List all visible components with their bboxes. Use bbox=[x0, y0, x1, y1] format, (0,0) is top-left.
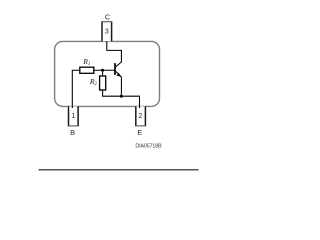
wire R2 bottom to emitter rail bbox=[103, 90, 140, 108]
svg-text:2: 2 bbox=[138, 111, 142, 120]
svg-text:R2: R2 bbox=[89, 77, 98, 87]
transistor Q1 collector lead bbox=[116, 62, 122, 67]
node junction dot base/R2 bbox=[101, 69, 104, 72]
resistor R2 bbox=[100, 76, 106, 90]
resistor R1 bbox=[80, 67, 94, 73]
transistor Q1 emitter lead bbox=[116, 71, 122, 77]
svg-text:3: 3 bbox=[105, 26, 109, 35]
wire junction down to R2 bbox=[102, 70, 104, 76]
svg-text:B: B bbox=[70, 128, 75, 137]
svg-text:1: 1 bbox=[71, 111, 75, 120]
pin 1 terminal box bbox=[68, 106, 79, 126]
transistor Q1 base bar bbox=[114, 63, 116, 75]
package outline SOT23 body bbox=[55, 41, 160, 106]
wire R1 right to base bbox=[94, 69, 115, 71]
svg-text:R1: R1 bbox=[82, 57, 90, 67]
wire base: from left corner through R1 to base bar bbox=[72, 70, 80, 108]
pin 3 terminal box bbox=[101, 22, 112, 42]
svg-text:C: C bbox=[105, 12, 111, 21]
footer rule line bbox=[39, 169, 199, 171]
pin 2 terminal box bbox=[135, 106, 146, 126]
transistor Q1 emitter arrowhead bbox=[116, 73, 120, 77]
svg-text:DIA05718B: DIA05718B bbox=[135, 143, 162, 149]
node junction dot emitter rail bbox=[120, 95, 123, 98]
wire collector: pin3 down, jog right, down to transistor bbox=[107, 41, 122, 62]
wire emitter down bbox=[120, 77, 122, 96]
svg-text:E: E bbox=[137, 128, 142, 137]
